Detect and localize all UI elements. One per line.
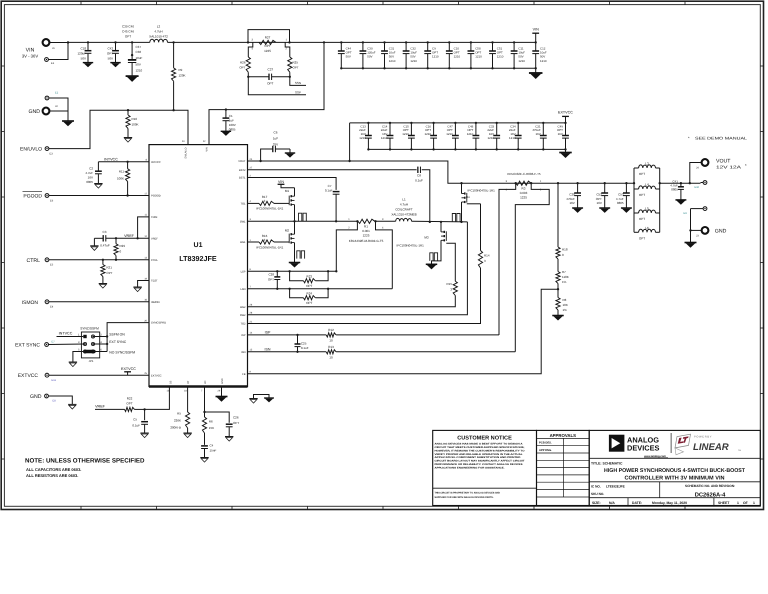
resistor R27 with bridge <box>247 30 291 53</box>
svg-text:E2: E2 <box>55 92 59 95</box>
svg-text:C5: C5 <box>133 417 137 421</box>
resistor R7 118K <box>556 259 569 298</box>
svg-text:E7: E7 <box>52 341 56 344</box>
svg-text:0.1uF: 0.1uF <box>132 423 140 427</box>
wire ISMON net <box>49 301 149 303</box>
ground at C53 <box>621 207 632 209</box>
svg-text:R10: R10 <box>132 117 138 121</box>
svg-text:OPT: OPT <box>293 66 299 70</box>
svg-text:1210: 1210 <box>402 132 409 136</box>
svg-text:C26: C26 <box>233 415 239 419</box>
svg-text:R6: R6 <box>209 420 213 424</box>
ground at C3 <box>90 238 98 250</box>
svg-text:VREF: VREF <box>95 404 106 408</box>
svg-text:10uF: 10uF <box>136 56 143 60</box>
svg-text:16V: 16V <box>88 175 93 179</box>
body diode M3 <box>430 253 433 261</box>
svg-text:ALL CAPACITORS ARE 0603.: ALL CAPACITORS ARE 0603. <box>26 467 81 472</box>
svg-text:VIN: VIN <box>533 28 539 32</box>
svg-text:3V - 36V: 3V - 36V <box>22 54 39 59</box>
svg-text:100V: 100V <box>229 123 236 127</box>
ground at R8 <box>552 315 563 317</box>
svg-text:3: 3 <box>264 199 266 203</box>
wire VOUT cap bank bottom rail <box>368 148 565 150</box>
svg-text:16V: 16V <box>597 201 602 205</box>
svg-text:C1: C1 <box>229 114 233 118</box>
svg-text:OPT: OPT <box>268 277 274 281</box>
svg-text:INTVCC: INTVCC <box>151 161 161 164</box>
svg-text:1210: 1210 <box>381 136 388 140</box>
svg-text:SSFM ON: SSFM ON <box>109 332 125 336</box>
capacitor C3 <box>94 230 149 247</box>
svg-text:SSP: SSP <box>295 90 301 94</box>
capacitor C25 <box>295 335 309 352</box>
svg-text:C18: C18 <box>80 47 86 51</box>
wire PGOOD net <box>49 195 149 197</box>
resistor R14 gate <box>478 204 489 268</box>
svg-text:BST1: BST1 <box>239 177 246 180</box>
svg-text:C4: C4 <box>210 444 214 448</box>
capacitor C21 <box>532 122 546 151</box>
wire BST2 net <box>248 170 430 222</box>
inductor L2 <box>149 25 168 43</box>
svg-text:1210: 1210 <box>446 132 453 136</box>
capacitor C1 <box>223 108 236 131</box>
wire R3 kelvin right to ISN <box>515 183 549 352</box>
svg-text:0805: 0805 <box>671 188 678 192</box>
inductor L1 <box>391 197 467 222</box>
svg-text:TRIM: TRIM <box>151 216 157 219</box>
svg-text:L3: L3 <box>645 162 649 166</box>
svg-text:R21: R21 <box>106 265 112 269</box>
turret E6 PGOOD <box>23 192 54 203</box>
svg-text:LSP: LSP <box>241 270 246 273</box>
capacitor C10 <box>446 41 461 69</box>
svg-text:50V: 50V <box>81 57 86 61</box>
svg-text:OPT: OPT <box>264 44 270 48</box>
wire GND turrets to ground <box>49 98 68 121</box>
resistor R5 226K <box>170 387 189 434</box>
svg-text:IPC100N04S5L-1R1: IPC100N04S5L-1R1 <box>256 246 284 250</box>
svg-text:L2: L2 <box>157 25 161 29</box>
jumper JP1 SYNC/SSFM <box>78 327 102 363</box>
power flag EXTVCC at pin 25 <box>121 367 136 375</box>
capacitor C16 <box>424 122 437 151</box>
wire EXT SYNC to JP1 pin3 <box>49 343 85 346</box>
svg-text:R15: R15 <box>446 282 452 286</box>
wire VIN cap bank top rail <box>341 41 535 43</box>
svg-text:DC2626A-4: DC2626A-4 <box>695 491 726 498</box>
svg-text:0.47uF: 0.47uF <box>100 243 110 247</box>
svg-text:FB: FB <box>242 373 246 376</box>
wire INTVCC net <box>98 161 149 163</box>
svg-text:1: 1 <box>753 501 755 505</box>
ground at C20 <box>572 207 583 209</box>
svg-text:NOTE: UNLESS OTHERWISE SPECIFI: NOTE: UNLESS OTHERWISE SPECIFIED <box>25 458 145 465</box>
ground at C6 <box>285 149 295 158</box>
svg-text:INTVCC: INTVCC <box>59 332 73 336</box>
resistor R3 sense with label <box>506 172 542 200</box>
wire R27 kelvin right <box>285 42 290 57</box>
svg-text:0.001: 0.001 <box>362 229 370 233</box>
svg-text:LT8392EJFE: LT8392EJFE <box>606 484 625 488</box>
wire VC pin node <box>203 387 205 414</box>
svg-text:SSN: SSN <box>295 81 301 85</box>
svg-text:R26: R26 <box>240 61 246 65</box>
svg-text:KRL6432E-M-R002-G-T5: KRL6432E-M-R002-G-T5 <box>349 239 384 243</box>
turret E2 <box>45 92 59 100</box>
turret E1 <box>45 58 55 65</box>
svg-text:CTRL: CTRL <box>26 258 40 264</box>
turret J2 GND <box>28 105 58 115</box>
resistor R21 OPT <box>101 259 113 284</box>
svg-text:OPT: OPT <box>639 217 645 221</box>
svg-text:Monday, May 11, 2020: Monday, May 11, 2020 <box>652 501 687 505</box>
resistor R1 sense <box>348 218 395 243</box>
wire JP1 right pins to SYNC bus <box>93 335 108 351</box>
svg-text:L4: L4 <box>645 183 649 187</box>
svg-text:E5: E5 <box>50 264 54 267</box>
svg-text:R13: R13 <box>328 345 334 349</box>
power flag EXTVCC at cap bank <box>558 111 573 123</box>
resistor R29 0 <box>114 237 139 261</box>
svg-text:C27: C27 <box>268 67 274 71</box>
svg-text:SIZE:: SIZE: <box>592 501 601 505</box>
svg-text:EXT SYNC: EXT SYNC <box>109 340 126 344</box>
capacitor C58 <box>468 41 483 69</box>
title block frame <box>433 430 761 505</box>
wire ISP net <box>248 331 500 337</box>
svg-text:VERIFY PROPER AND RELIABLE OPE: VERIFY PROPER AND RELIABLE OPERATION IN … <box>435 453 524 456</box>
wire SW2 net <box>248 222 468 315</box>
svg-text:SUPPLIED FOR USE WITH ANALOG D: SUPPLIED FOR USE WITH ANALOG DEVICES PAR… <box>435 496 494 499</box>
svg-text:50V: 50V <box>346 55 351 59</box>
capacitor C9 <box>424 41 439 69</box>
turret J4 VOUT <box>690 159 747 184</box>
svg-text:15K: 15K <box>209 426 214 430</box>
capacitor C2 <box>85 162 101 184</box>
transistor M3 <box>397 221 447 265</box>
resistor R11 100K <box>117 161 130 197</box>
wire cap bank to VOUT rail <box>349 123 351 161</box>
capacitor C41 <box>670 179 684 200</box>
resistor R25 OPT <box>288 57 299 77</box>
svg-text:L5: L5 <box>645 207 649 211</box>
svg-text:10: 10 <box>329 355 333 359</box>
svg-text:SKU NO.: SKU NO. <box>591 492 604 496</box>
svg-text:1%: 1% <box>563 308 568 312</box>
svg-text:1210: 1210 <box>467 132 474 136</box>
ic no and schematic no row <box>589 482 760 499</box>
turret E7 EXT SYNC <box>15 341 55 349</box>
svg-text:RT: RT <box>187 380 190 384</box>
capacitor C11 <box>511 41 526 69</box>
capacitor C7 <box>325 184 340 222</box>
svg-text:0805: 0805 <box>617 201 624 205</box>
svg-text:C7: C7 <box>328 184 332 188</box>
svg-text:R29: R29 <box>120 244 126 248</box>
turret E10 <box>695 181 707 189</box>
resistor R24 OPT <box>290 289 329 305</box>
svg-text:EN/UVLO: EN/UVLO <box>20 147 42 153</box>
svg-text:OPT: OPT <box>306 301 312 305</box>
svg-text:1210: 1210 <box>509 136 516 140</box>
transistor M1 <box>256 188 295 222</box>
svg-text:1210: 1210 <box>410 59 417 63</box>
svg-text:GND: GND <box>221 378 224 384</box>
wire TEST pin to ground <box>138 281 149 288</box>
svg-text:R8: R8 <box>563 298 567 302</box>
svg-text:E3: E3 <box>50 153 54 156</box>
resistor R26 OPT <box>239 57 250 77</box>
svg-text:VREF: VREF <box>124 234 135 238</box>
U1 top pin names EN/UVLO and VIN <box>182 140 209 158</box>
svg-text:1%: 1% <box>562 280 567 284</box>
svg-text:R24: R24 <box>307 292 313 296</box>
svg-text:1210: 1210 <box>389 59 396 63</box>
svg-text:1225: 1225 <box>264 49 271 53</box>
svg-text:1210: 1210 <box>540 59 547 63</box>
svg-text:P O W E R B Y: P O W E R B Y <box>694 436 712 439</box>
svg-text:R25: R25 <box>293 61 299 65</box>
svg-text:OF: OF <box>743 501 748 505</box>
svg-text:GND: GND <box>30 394 42 400</box>
svg-text:E10: E10 <box>695 186 700 189</box>
capacitor C4 15nF <box>201 444 216 458</box>
svg-text:U1: U1 <box>194 242 203 249</box>
ground at C18 <box>83 62 93 64</box>
svg-text:CUSTOMER NOTICE: CUSTOMER NOTICE <box>457 435 512 441</box>
capacitor C32 <box>403 41 418 69</box>
svg-text:50V: 50V <box>367 55 372 59</box>
svg-text:JP1: JP1 <box>89 359 94 363</box>
body diode M2 <box>297 251 300 259</box>
svg-text:VOUT: VOUT <box>238 160 246 163</box>
svg-text:EXTVCC: EXTVCC <box>18 373 39 379</box>
svg-text:R27: R27 <box>265 36 271 40</box>
wire BST1 net <box>248 178 337 190</box>
svg-text:1210: 1210 <box>488 136 495 140</box>
turret E5 CTRL <box>26 258 53 267</box>
svg-text:CIRCUIT BOARD LAYOUT MAY SIGNI: CIRCUIT BOARD LAYOUT MAY SIGNIFICANTLY A… <box>435 460 526 463</box>
svg-text:LSN: LSN <box>240 288 245 291</box>
svg-text:VC: VC <box>204 380 207 384</box>
capacitor C27 OPT <box>247 67 291 85</box>
power flag VIN at cap bank <box>532 28 539 43</box>
svg-text:LINEAR: LINEAR <box>693 442 729 453</box>
svg-text:E9: E9 <box>684 212 688 215</box>
net label INTVCC at JP1 <box>57 332 84 337</box>
ground at C5 <box>140 432 148 434</box>
svg-text:VIN: VIN <box>278 180 284 184</box>
svg-text:OPT: OPT <box>125 35 131 39</box>
capacitor C5 <box>132 409 148 433</box>
turret E8 GND <box>30 394 56 403</box>
capacitor C44 <box>338 41 352 69</box>
svg-text:OPT: OPT <box>239 66 245 70</box>
capacitor C12 <box>532 41 547 69</box>
ground at J2 <box>62 120 74 122</box>
capacitor C37 C38 <box>128 41 143 76</box>
svg-text:E11: E11 <box>52 379 57 382</box>
ground tie symbol <box>249 395 274 404</box>
note unless otherwise specified <box>25 458 145 478</box>
wire E1 to VIN rail <box>49 41 70 59</box>
resistor R8 10K <box>556 298 568 316</box>
inductor ladder L3 L4 L5 L6 <box>633 162 661 241</box>
svg-text:N/A: N/A <box>609 501 615 505</box>
ground at VIN cap bank <box>529 68 543 79</box>
customer notice box <box>433 435 537 499</box>
svg-text:EXT SYNC: EXT SYNC <box>15 343 40 349</box>
svg-text:EXTVCC: EXTVCC <box>121 367 136 371</box>
svg-text:118K: 118K <box>562 275 569 279</box>
ground at C4 <box>200 457 208 459</box>
svg-text:SYNC/SPRD: SYNC/SPRD <box>151 322 166 325</box>
svg-text:IPC100N04S5L-1R1: IPC100N04S5L-1R1 <box>256 207 284 211</box>
svg-text:C8: C8 <box>417 174 421 178</box>
svg-text:TM: TM <box>738 449 741 452</box>
turret E4 ISMON <box>22 300 54 309</box>
wire ISN net <box>248 347 516 353</box>
ground at C41 <box>675 199 686 201</box>
svg-text:BST2: BST2 <box>239 169 246 172</box>
svg-text:DEVICES: DEVICES <box>627 444 660 453</box>
svg-text:www.analog.com: www.analog.com <box>643 455 666 458</box>
svg-text:1210: 1210 <box>432 55 439 59</box>
resistor R12 <box>326 328 336 342</box>
wire SW1 net <box>248 220 358 222</box>
svg-text:ISP: ISP <box>241 334 245 337</box>
svg-text:OPT: OPT <box>639 237 645 241</box>
svg-text:L1: L1 <box>402 197 406 201</box>
svg-text:THIS CIRCUIT IS PROPRIETARY TO: THIS CIRCUIT IS PROPRIETARY TO ANALOG DE… <box>435 492 501 495</box>
svg-text:OPT: OPT <box>639 193 645 197</box>
svg-text:15nF: 15nF <box>210 449 217 453</box>
ground at J3 <box>685 242 697 244</box>
svg-text:OPT: OPT <box>107 52 113 56</box>
svg-text:XAL1310-472MEB: XAL1310-472MEB <box>391 212 416 216</box>
ground at TEST <box>133 286 141 288</box>
svg-text:SW1: SW1 <box>240 220 246 223</box>
body diode M4 <box>452 214 455 222</box>
svg-text:SS: SS <box>170 380 173 384</box>
svg-text:R22: R22 <box>127 396 133 400</box>
wire J1 to VIN rail <box>50 42 69 44</box>
svg-text:M1: M1 <box>285 189 290 193</box>
resistor R6 15K <box>202 412 214 445</box>
wire CTRL net <box>49 259 149 261</box>
svg-text:NO SYNC/SSFM: NO SYNC/SSFM <box>109 350 135 354</box>
svg-text:APP ENG.: APP ENG. <box>539 449 552 452</box>
capacitor C14 <box>381 122 394 151</box>
capacitor C52 <box>596 182 608 208</box>
ground at R21 <box>99 283 107 285</box>
svg-text:C42: C42 <box>107 47 113 51</box>
svg-text:BG1: BG1 <box>240 241 246 244</box>
svg-text:C38: C38 <box>136 50 142 54</box>
capacitor C31 <box>381 41 396 69</box>
svg-text:1210: 1210 <box>136 69 143 73</box>
capacitor C53 <box>616 182 630 208</box>
capacitor C18 <box>77 41 91 62</box>
svg-text:C39 C40: C39 C40 <box>122 25 134 29</box>
svg-text:16V: 16V <box>558 132 563 136</box>
svg-text:GND: GND <box>28 109 40 115</box>
capacitor C48 <box>467 122 480 151</box>
svg-text:APPLICATION. COMPONENT SUBSTIT: APPLICATION. COMPONENT SUBSTITUTION AND … <box>435 456 521 459</box>
U1 bottom pin names <box>167 378 225 392</box>
wire VOUT to output turrets <box>660 182 701 184</box>
svg-text:1210: 1210 <box>475 55 482 59</box>
svg-text:E6: E6 <box>50 199 54 202</box>
ground at C1 <box>221 130 231 132</box>
svg-text:R5: R5 <box>177 412 181 416</box>
svg-text:C28: C28 <box>268 272 274 276</box>
capacitor C6 <box>259 130 290 162</box>
transistor M4 <box>429 182 496 223</box>
svg-text:VOUT: VOUT <box>716 159 731 165</box>
capacitor C26 OPT <box>205 412 240 437</box>
svg-text:GND: GND <box>715 228 727 234</box>
svg-text:16V: 16V <box>569 201 574 205</box>
svg-text:R23: R23 <box>307 275 313 279</box>
svg-text:IC NO.: IC NO. <box>591 484 601 488</box>
wire TRIM pin <box>138 217 149 238</box>
svg-text:R14: R14 <box>484 254 490 258</box>
capacitor C42 <box>107 41 119 62</box>
svg-text:10K: 10K <box>563 303 568 307</box>
ground at C26 <box>225 436 233 438</box>
svg-text:OPT: OPT <box>639 172 645 176</box>
svg-text:OPT: OPT <box>306 284 312 288</box>
svg-text:ISMON: ISMON <box>151 301 160 304</box>
svg-text:C2: C2 <box>89 166 93 170</box>
label C39 C40 C45 C46 OPT <box>122 25 134 39</box>
svg-text:16V: 16V <box>535 132 540 136</box>
wire BG2 net <box>248 296 456 307</box>
svg-text:ISP: ISP <box>265 331 271 335</box>
svg-text:1210: 1210 <box>454 55 461 59</box>
resistor R18 0 <box>556 182 568 259</box>
svg-text:1210: 1210 <box>518 59 525 63</box>
svg-text:0805: 0805 <box>86 180 93 184</box>
wire E8 to ground <box>49 396 73 404</box>
capacitor C33 <box>487 122 500 151</box>
svg-text:M4: M4 <box>466 196 470 199</box>
label VIN 3V-36V <box>22 48 39 59</box>
svg-text:E1: E1 <box>51 62 55 65</box>
svg-text:200KHz: 200KHz <box>170 426 181 430</box>
wire VIN rail <box>68 41 341 43</box>
svg-text:TEST: TEST <box>151 280 158 283</box>
U1 left pin names and numbers <box>144 159 166 378</box>
svg-text:1uF: 1uF <box>273 136 278 140</box>
svg-text:HIGH POWER SYNCHRONOUS 4-SWITC: HIGH POWER SYNCHRONOUS 4-SWITCH BUCK-BOO… <box>604 468 746 474</box>
svg-text:ISMON: ISMON <box>22 300 39 306</box>
svg-text:CONTROLLER WITH 3V MINIMUM VIN: CONTROLLER WITH 3V MINIMUM VIN <box>625 476 725 482</box>
resistor R22 OPT <box>95 396 145 411</box>
wire SSN stub <box>290 77 306 86</box>
transistor M2 <box>256 221 295 262</box>
svg-text:ALL RESISTORS ARE 0603.: ALL RESISTORS ARE 0603. <box>26 473 78 478</box>
wire R3 kelvin left to ISP <box>499 183 516 335</box>
svg-text:4.7uH: 4.7uH <box>154 30 162 34</box>
svg-text:PERFORMANCE OR RELIABILITY. CO: PERFORMANCE OR RELIABILITY. CONTACT ANAL… <box>435 463 524 466</box>
svg-text:TITLE: SCHEMATIC: TITLE: SCHEMATIC <box>591 461 623 465</box>
svg-text:3: 3 <box>264 238 266 242</box>
wire LSN net <box>248 288 393 290</box>
